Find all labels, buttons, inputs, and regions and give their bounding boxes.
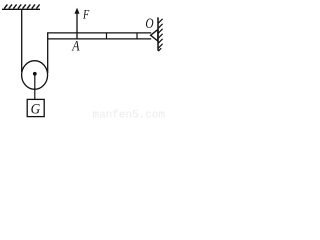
beam tick 2 [136, 33, 138, 39]
wire rope from ceiling to pulley [21, 9, 23, 72]
svg-text:A: A [71, 39, 79, 55]
svg-text:G: G [31, 102, 41, 118]
ceiling hatching [4, 4, 39, 8]
force arrow F at A [75, 8, 80, 39]
pulley wheel [22, 61, 48, 90]
svg-text:F: F [82, 7, 90, 22]
hinge triangle at O [151, 30, 158, 42]
svg-text:manfen5.com: manfen5.com [93, 110, 166, 121]
svg-text:O: O [145, 16, 154, 32]
pulley axle dot [33, 72, 37, 76]
beam tick 1 [106, 33, 108, 39]
wire rope from pulley to load [34, 74, 36, 100]
load box G [27, 99, 44, 116]
beam from A-end to wall [47, 33, 151, 39]
wire rope from beam end down to pulley [47, 33, 49, 73]
wall hatching [158, 19, 162, 51]
ceiling [2, 8, 40, 10]
wall at O [157, 17, 159, 50]
